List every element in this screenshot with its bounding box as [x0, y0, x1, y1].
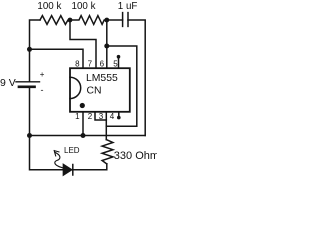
resistor R1: [40, 16, 70, 25]
svg-text:330 Ohm: 330 Ohm: [114, 150, 157, 162]
wire pin 1 to ground line: [82, 112, 84, 135]
svg-text:9 V: 9 V: [0, 77, 16, 89]
wire node C to pin 6: [106, 46, 108, 68]
wire node A to pin 7: [70, 20, 96, 68]
junction dot pin1/ground: [81, 133, 86, 138]
wire node B down to node C: [106, 20, 108, 46]
wire resistor R3 bottom to LED cathode: [73, 164, 107, 170]
LED D1 triangle: [63, 165, 71, 176]
svg-text:5: 5: [113, 59, 118, 68]
junction dot on left rail at V+ tap: [27, 47, 32, 52]
svg-text:LM555: LM555: [86, 73, 118, 84]
wire left rail upper (battery + to top rail corner): [30, 20, 41, 82]
capacitor C1 right plate: [127, 13, 129, 27]
wire V+ to pin 8: [30, 49, 84, 68]
resistor R3 330 Ohm (vertical zigzag): [102, 140, 113, 164]
svg-text:4: 4: [110, 112, 115, 121]
wire ground horizontal (pin1 / left rail / cap return): [30, 135, 146, 137]
svg-text:7: 7: [88, 59, 93, 68]
op-amp/timer IC U1 LM555 body: [70, 68, 130, 112]
battery B1 positive plate: [16, 81, 40, 83]
wire pin 2 jog joining pin 3 line: [95, 112, 106, 120]
svg-text:-: -: [41, 85, 44, 95]
battery B1 negative plate: [19, 85, 35, 88]
IC pin-1 marker dot: [80, 103, 85, 108]
svg-text:1 uF: 1 uF: [118, 1, 138, 12]
svg-text:100 k: 100 k: [37, 1, 61, 12]
svg-text:2: 2: [88, 112, 93, 121]
LED D1 cathode bar: [72, 165, 74, 176]
junction dot on left rail at ground line: [27, 133, 32, 138]
svg-text:3: 3: [99, 112, 104, 121]
capacitor C1 left plate: [122, 13, 124, 27]
svg-text:6: 6: [100, 59, 105, 68]
junction node B (R2/C1/pin6): [104, 18, 109, 23]
pin 5 stub with open terminal dot: [118, 57, 120, 68]
wire capacitor to right rail down to ground line: [128, 20, 145, 136]
wire node C right and down to output line: [106, 46, 137, 126]
svg-text:1: 1: [75, 112, 80, 121]
wire left rail lower (battery - to bottom, to LED anode): [30, 87, 64, 170]
svg-text:+: +: [40, 70, 45, 79]
wire pin 3 down to resistor R3: [105, 112, 107, 140]
svg-text:CN: CN: [87, 86, 102, 97]
svg-text:100 k: 100 k: [72, 1, 96, 12]
resistor R2: [70, 16, 107, 25]
pin 4 stub with open terminal dot: [118, 112, 120, 117]
svg-text:8: 8: [75, 59, 80, 68]
LED light squiggle arrow: [55, 152, 63, 168]
svg-text:LED: LED: [64, 146, 80, 155]
junction node C: [104, 44, 109, 49]
IC notch (left-edge semicircle): [70, 77, 81, 98]
wire node B to capacitor: [107, 19, 123, 21]
junction node A (R1/R2/pin7): [68, 18, 73, 23]
